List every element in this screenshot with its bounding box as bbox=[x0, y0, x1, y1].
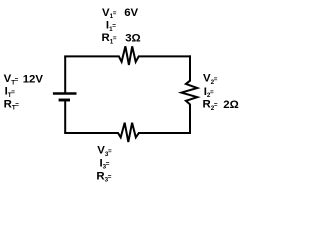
top wire with resistor R1 zigzag bbox=[64, 46, 191, 65]
wire battery to bottom-left corner (left branch lower segment) bbox=[64, 100, 66, 133]
battery VT bottom plate (short) bbox=[59, 99, 70, 102]
battery VT top plate (long) bbox=[53, 92, 77, 94]
wire top-left to battery (left branch upper segment) bbox=[64, 56, 66, 93]
right wire with resistor R2 zigzag (vertical) bbox=[181, 55, 197, 134]
bottom wire with resistor R3 zigzag bbox=[64, 123, 191, 142]
svg-text:VT=12V: VT=12V bbox=[4, 73, 44, 86]
